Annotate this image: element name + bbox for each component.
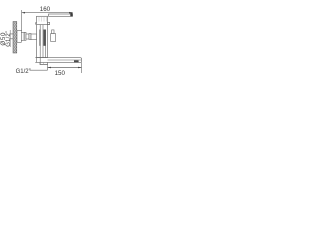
outlet inner line <box>43 62 45 64</box>
body dark strip A <box>39 30 40 46</box>
body inner line A <box>39 25 41 65</box>
wall section hatch <box>13 22 17 54</box>
arrow right of 160 <box>69 12 73 14</box>
nut face line 2 <box>22 32 24 40</box>
diverter knob <box>51 34 56 42</box>
faucet body <box>37 16 48 57</box>
wall flange <box>17 31 21 43</box>
svg-text:G1/2”: G1/2” <box>16 69 31 75</box>
nut face line <box>24 32 26 40</box>
spout bottom line <box>35 61 81 63</box>
extension line right of 150 <box>81 63 83 73</box>
body thread lines <box>39 17 46 22</box>
diverter knob stem <box>52 30 54 34</box>
body joint line <box>37 24 50 26</box>
connection nut <box>21 32 26 40</box>
svg-text:150: 150 <box>55 70 66 77</box>
inlet pipe to body <box>31 34 37 40</box>
handle tip cap <box>70 12 72 16</box>
arrow left of 150 <box>48 67 52 69</box>
handle lever <box>49 14 73 16</box>
eccentric cylinder <box>26 34 29 39</box>
body left step <box>35 23 38 25</box>
body left edge extension <box>36 58 38 63</box>
svg-text:G1/2”: G1/2” <box>6 31 12 47</box>
body inner line C <box>45 30 47 58</box>
dimension line 160 <box>22 12 73 14</box>
body dark strip B <box>43 30 45 46</box>
bottom outlet stub <box>40 62 48 64</box>
spout mid line <box>48 59 82 61</box>
body inner line B <box>42 25 44 58</box>
aerator block <box>74 60 79 62</box>
extension line left of 150 <box>47 65 49 71</box>
extension line left of 160 <box>21 10 23 31</box>
leader line for G1/2" <box>30 69 48 71</box>
dimension line 150 <box>48 67 82 69</box>
spout top edge <box>35 58 81 63</box>
body joint lip <box>48 22 50 24</box>
arrow left of 160 <box>22 12 26 14</box>
coupling box <box>29 34 31 40</box>
label extension line <box>9 30 11 47</box>
arrow right of 150 <box>78 67 82 69</box>
pipe stub in wall <box>10 34 13 39</box>
svg-text:160: 160 <box>40 6 51 13</box>
